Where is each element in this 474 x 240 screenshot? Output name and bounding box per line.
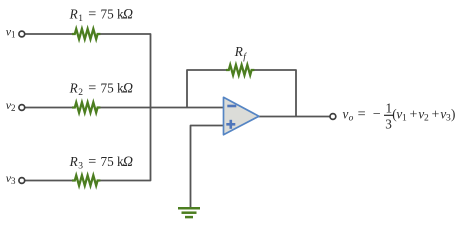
- svg-text:): ): [451, 106, 455, 121]
- node terminal v1: [19, 31, 25, 37]
- svg-text:75 k: 75 k: [101, 81, 124, 96]
- svg-text:Ω: Ω: [123, 81, 133, 97]
- wire feedback from Rf right and down to output: [254, 70, 296, 117]
- label R3 = 75 kOhm: [69, 154, 133, 171]
- svg-text:o: o: [349, 114, 354, 124]
- svg-text:−: −: [373, 107, 381, 122]
- svg-text:3: 3: [78, 161, 83, 171]
- svg-text:Ω: Ω: [123, 7, 133, 23]
- svg-text:3: 3: [385, 117, 392, 132]
- svg-text:=: =: [358, 106, 366, 122]
- svg-text:v: v: [343, 106, 349, 121]
- svg-text:R: R: [69, 154, 78, 169]
- svg-text:R: R: [69, 7, 78, 22]
- svg-text:3: 3: [11, 176, 16, 186]
- wire feedback left vertical and top to Rf: [187, 70, 227, 108]
- svg-text:2: 2: [78, 88, 83, 98]
- ground: [178, 208, 200, 217]
- svg-text:1: 1: [386, 100, 393, 115]
- svg-text:R: R: [234, 44, 243, 59]
- svg-text:f: f: [243, 52, 247, 63]
- svg-text:=: =: [88, 154, 96, 170]
- resistor R2: [72, 102, 100, 112]
- svg-text:=: =: [88, 7, 96, 23]
- label output equation vo = -1/3(v1+v2+v3): [343, 100, 456, 131]
- node terminal v2: [19, 105, 25, 111]
- svg-text:Ω: Ω: [123, 154, 133, 170]
- wire v2 input horizontal to op-amp inverting input: [25, 107, 73, 109]
- svg-text:1: 1: [402, 114, 407, 124]
- resistor R3: [72, 175, 100, 185]
- svg-text:75 k: 75 k: [101, 7, 124, 22]
- label Rf: [234, 44, 248, 63]
- op-amp inverting pin mark: [227, 105, 236, 108]
- svg-text:2: 2: [424, 114, 429, 124]
- wire v1 corner, vertical bus down to v3 corner: [100, 34, 151, 181]
- op-amp U1: [224, 97, 259, 134]
- wire op-amp output: [259, 116, 331, 118]
- node terminal vo output: [330, 114, 336, 120]
- svg-text:+: +: [410, 107, 418, 122]
- label R1 = 75 kOhm: [69, 7, 133, 24]
- resistor Rf: [226, 65, 254, 75]
- svg-text:+: +: [432, 107, 440, 122]
- svg-text:R: R: [69, 81, 78, 96]
- wire v1 input horizontal: [25, 33, 73, 35]
- label R2 = 75 kOhm: [69, 81, 133, 98]
- svg-text:75 k: 75 k: [101, 154, 124, 169]
- wire non-inverting input to ground: [191, 126, 224, 208]
- svg-text:1: 1: [11, 30, 16, 40]
- wire v3 input horizontal: [25, 180, 73, 182]
- node terminal v3: [19, 178, 25, 184]
- op-amp non-inverting pin mark: [226, 123, 235, 126]
- svg-text:2: 2: [11, 103, 16, 113]
- svg-text:1: 1: [78, 14, 83, 24]
- svg-text:=: =: [88, 81, 96, 97]
- resistor R1: [72, 29, 100, 39]
